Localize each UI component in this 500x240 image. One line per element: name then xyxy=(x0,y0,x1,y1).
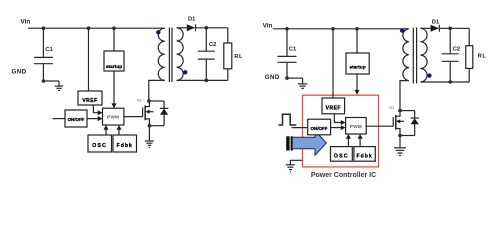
svg-text:OSC: OSC xyxy=(92,143,107,149)
svg-text:RL: RL xyxy=(234,54,243,60)
wire secondary top to D1 (right) xyxy=(420,27,430,29)
transformer T1 secondary (left) xyxy=(177,28,184,81)
ground symbol under S1 (left) xyxy=(145,141,154,147)
capacitor C1 (left) xyxy=(34,28,53,81)
diode across S1 (right) xyxy=(411,111,419,136)
svg-text:C2: C2 xyxy=(209,42,216,48)
block PWM U1d (left) xyxy=(103,108,124,125)
block Vref U2a (right) xyxy=(322,98,345,114)
svg-text:PWM: PWM xyxy=(107,115,119,120)
block Vref U1a (left) xyxy=(78,91,102,105)
resistor RL (right) xyxy=(468,28,470,45)
transistor S1 MOSFET (left) xyxy=(143,101,154,126)
ground symbol IC pin (right) xyxy=(286,165,295,172)
wire primary bottom to drain (left) xyxy=(149,80,165,101)
wire rail to startup box (left) xyxy=(113,28,115,51)
polarity dot primary (left) xyxy=(156,30,160,34)
wire OSC to PWM (right) xyxy=(347,138,349,147)
resistor RL (left) xyxy=(227,28,229,43)
svg-text:D1: D1 xyxy=(432,19,440,25)
arrowhead into PWM lower-left (left) xyxy=(98,116,103,121)
svg-text:RL: RL xyxy=(478,54,487,60)
wire PWM to gate (left) xyxy=(124,116,143,118)
wire Fdbk to PWM (right) xyxy=(359,138,361,147)
ground symbol under S1 (right) xyxy=(394,148,406,156)
ground symbol under C1 (right) xyxy=(298,78,308,88)
arrowhead into PWM top (left) xyxy=(112,103,117,108)
arrowhead into PWM upper-left (right) xyxy=(341,120,346,125)
wire startup to PWM (left) xyxy=(113,71,115,104)
wire C1 to ground (right) xyxy=(287,77,303,79)
block OSC U2e (right) xyxy=(331,147,353,162)
wire D1 to output (right) xyxy=(439,27,469,29)
wire primary bottom to drain (right) xyxy=(400,81,409,111)
wire on/off to PWM (right) xyxy=(331,127,342,129)
wire Vref to PWM (left) xyxy=(93,105,98,113)
wire S1 source to ground (left) xyxy=(149,125,164,127)
svg-text:C1: C1 xyxy=(45,47,53,53)
block startup U2b (right) xyxy=(346,53,369,74)
svg-text:GND: GND xyxy=(12,69,27,76)
body arrow of S1 (left) xyxy=(145,110,149,114)
wire input to on/off box (left) xyxy=(53,118,66,120)
wire rail to startup box (right) xyxy=(356,29,358,53)
wire secondary bottom rail (left) xyxy=(177,79,228,81)
wire OSC to PWM (left) xyxy=(105,129,107,135)
polarity dot secondary (right) xyxy=(427,73,431,77)
arrowhead Fdbk into PWM bottom (left) xyxy=(117,125,122,130)
svg-text:startup: startup xyxy=(349,64,365,69)
wire on/off to PWM (left) xyxy=(87,118,99,120)
transistor S1 MOSFET (right) xyxy=(393,111,404,136)
transformer T2 secondary (right) xyxy=(420,28,427,82)
svg-text:GND: GND xyxy=(265,74,280,81)
big blue arrow pointing at IC xyxy=(286,131,326,156)
svg-text:C2: C2 xyxy=(453,46,460,52)
capacitor C1 (right) xyxy=(278,29,297,78)
wire Vref to PWM (right) xyxy=(334,114,341,123)
svg-text:D1: D1 xyxy=(188,16,196,22)
wire top rail (left) xyxy=(28,27,165,29)
wire drain node to diode branch (left) xyxy=(149,100,164,102)
transformer T1 core (left) xyxy=(169,28,172,83)
IC boundary red box Power Controller IC xyxy=(303,95,379,167)
svg-text:OSC: OSC xyxy=(334,154,349,160)
block PWM U2d (right) xyxy=(346,118,367,135)
svg-text:VREF: VREF xyxy=(82,98,97,104)
junction drain node (left) xyxy=(147,99,151,103)
svg-text:ON/OFF: ON/OFF xyxy=(311,126,328,131)
arrowhead OSC into PWM bottom (right) xyxy=(346,134,351,139)
arrowhead into PWM upper-left (left) xyxy=(98,110,103,115)
svg-text:S1: S1 xyxy=(137,97,143,102)
wire PWM to gate (right) xyxy=(366,125,393,127)
wire D1 to output (left) xyxy=(196,27,228,29)
block Fdbk U2f (right) xyxy=(354,147,375,162)
svg-text:startup: startup xyxy=(106,64,122,69)
polarity dot secondary (left) xyxy=(183,70,187,74)
wire C1 to ground (left) xyxy=(43,80,59,82)
arrowhead into PWM lower-left (right) xyxy=(341,125,346,130)
polarity dot primary (right) xyxy=(400,28,404,32)
IC ground pin wire (right) xyxy=(290,160,302,164)
block OSC U1e (left) xyxy=(88,135,112,152)
svg-text:Vin: Vin xyxy=(263,22,273,29)
ground symbol under C1 (left) xyxy=(55,81,64,90)
capacitor C2 (right) xyxy=(442,28,459,82)
arrowhead OSC into PWM bottom (left) xyxy=(104,125,109,130)
wire input to on/off box (right) xyxy=(292,127,308,129)
transformer T2 primary (right) xyxy=(403,29,409,81)
block on/off U1c (left) xyxy=(65,110,87,127)
block Fdbk U1f (left) xyxy=(113,135,137,152)
wire secondary bottom rail (right) xyxy=(420,81,469,83)
wire secondary top to D1 (left) xyxy=(177,27,187,29)
wire rail to Vref box (left) xyxy=(88,28,90,91)
svg-text:ON/OFF: ON/OFF xyxy=(68,117,85,122)
diode across S1 (left) xyxy=(160,101,168,126)
svg-text:VREF: VREF xyxy=(326,105,341,111)
svg-text:Vin: Vin xyxy=(21,19,31,26)
arrowhead Fdbk into PWM bottom (right) xyxy=(358,134,363,139)
wire startup to IC (right) xyxy=(356,74,358,91)
junction dots on rail (right) xyxy=(285,27,359,31)
arrowhead startup into IC top (right) xyxy=(355,90,360,95)
block on/off U2c (right) xyxy=(308,119,331,135)
junction dots on rail (left) xyxy=(42,26,116,30)
body arrow of S1 (right) xyxy=(396,119,400,123)
wire drain node to diode branch (right) xyxy=(400,110,415,112)
diode D1 (right) xyxy=(431,25,439,32)
svg-text:C1: C1 xyxy=(289,47,297,53)
svg-text:Fdbk: Fdbk xyxy=(357,154,373,160)
wire S1 source to ground (right) xyxy=(400,135,415,137)
wire Fdbk to PWM (left) xyxy=(118,129,120,135)
svg-text:S1: S1 xyxy=(389,105,395,110)
capacitor C2 (left) xyxy=(198,28,215,81)
wire top rail (right) xyxy=(273,28,409,30)
svg-text:Fdbk: Fdbk xyxy=(117,143,133,149)
transformer T2 core (right) xyxy=(413,28,416,84)
transformer T1 primary (left) xyxy=(158,28,165,80)
block startup U1b (left) xyxy=(104,51,124,71)
diode D1 (left) xyxy=(187,24,195,31)
wire rail to Vref box (right) xyxy=(332,29,334,98)
svg-text:Power Controller IC: Power Controller IC xyxy=(311,172,376,179)
svg-text:PWM: PWM xyxy=(350,124,362,129)
input pulse waveform symbol (right) xyxy=(279,114,297,125)
